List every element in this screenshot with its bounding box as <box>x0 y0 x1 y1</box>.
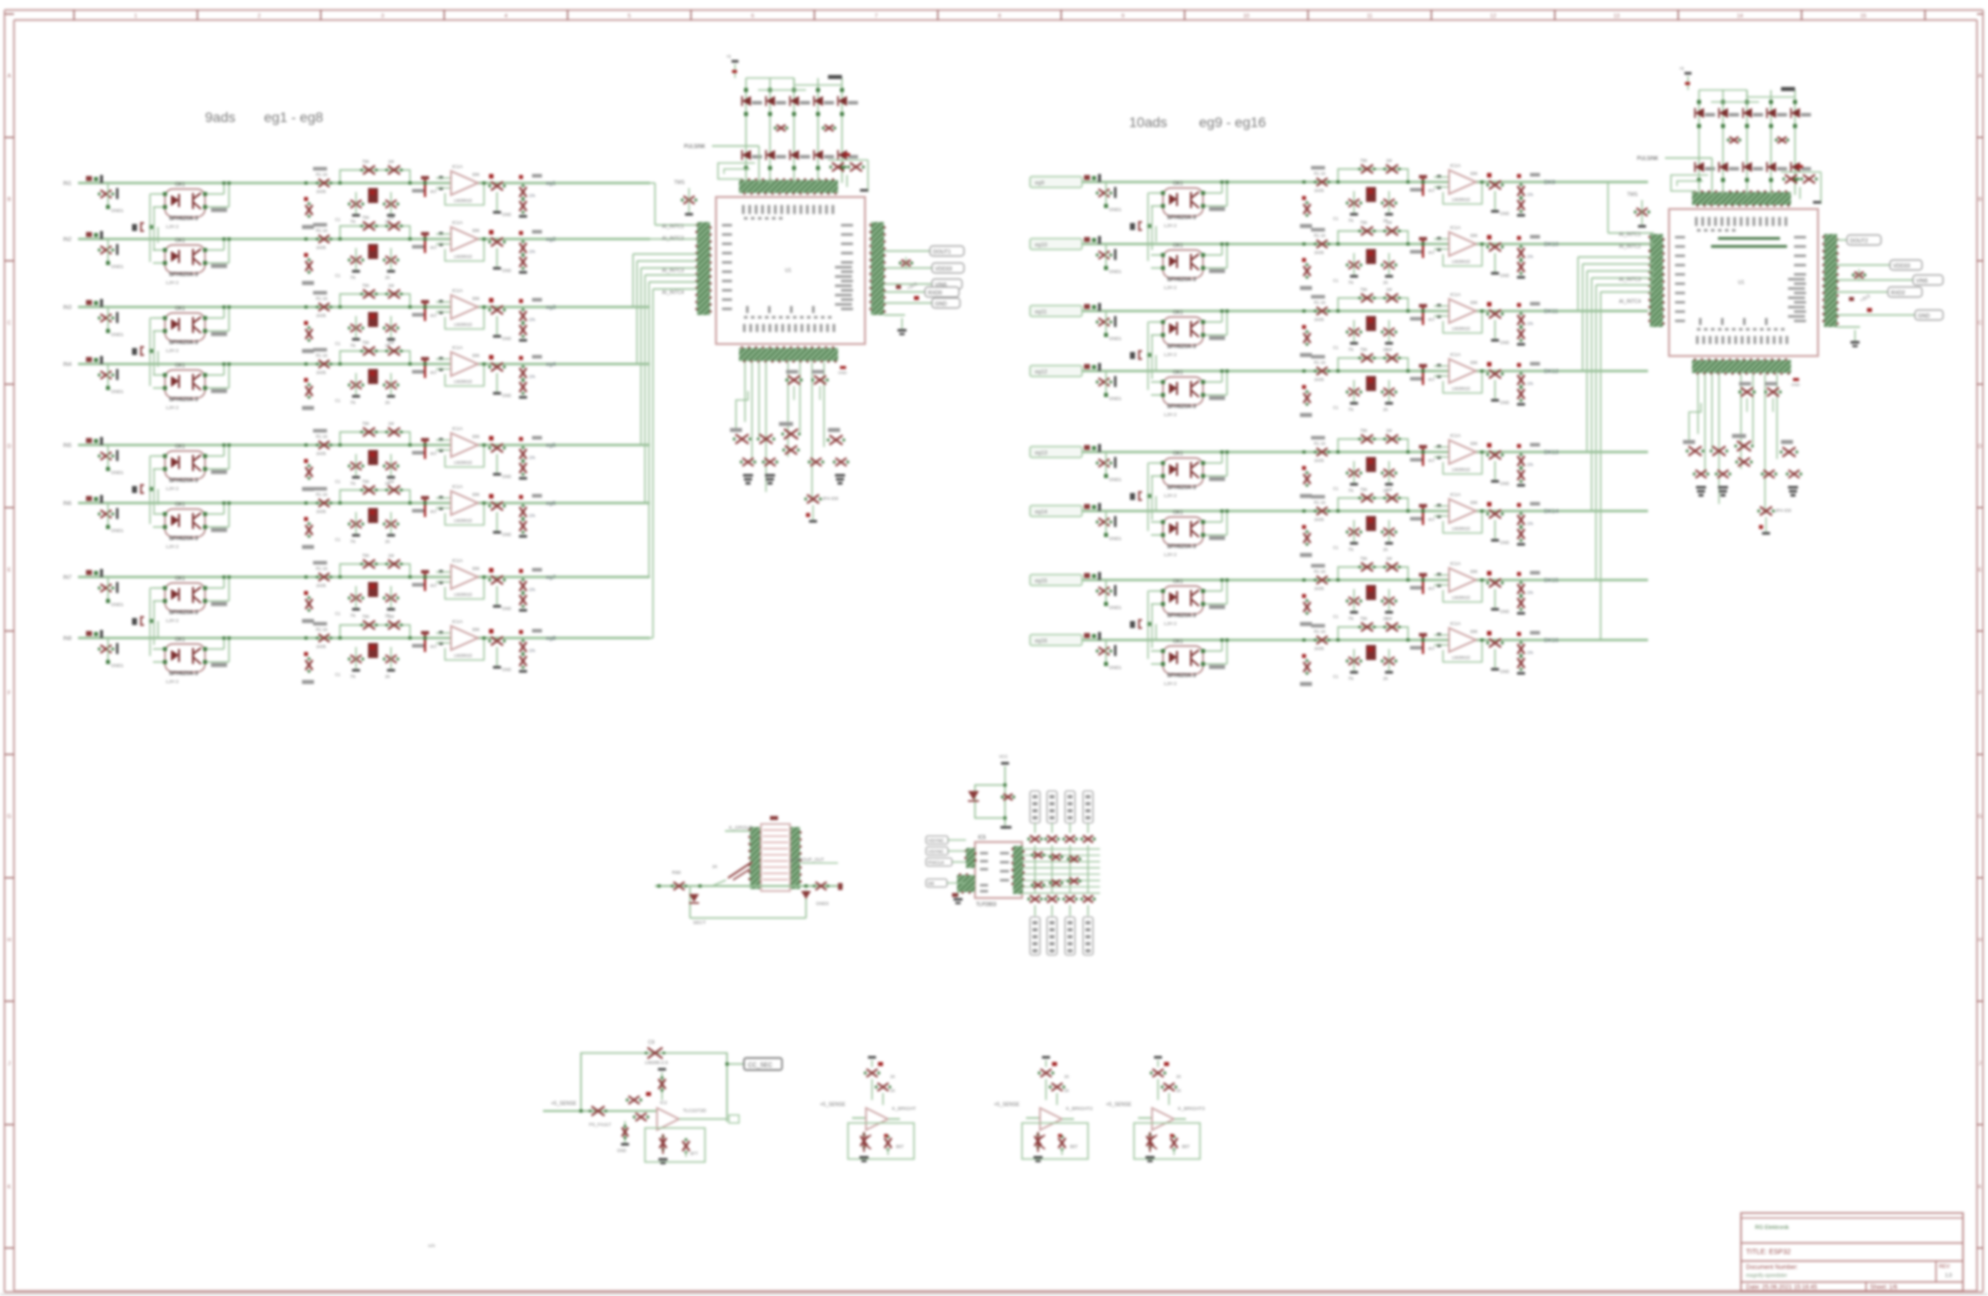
svg-text:1K05: 1K05 <box>1314 517 1324 522</box>
svg-text:1.0: 1.0 <box>1945 1273 1952 1279</box>
svg-text:1M: 1M <box>388 553 394 558</box>
svg-text:GND1: GND1 <box>111 602 124 607</box>
svg-text:GND: GND <box>502 606 511 611</box>
svg-text:LJH 2: LJH 2 <box>166 405 179 411</box>
svg-text:1M: 1M <box>388 479 394 484</box>
svg-text:75K: 75K <box>362 159 370 164</box>
svg-text:H: H <box>7 938 11 944</box>
svg-text:9ads: 9ads <box>205 109 235 125</box>
svg-text:DK15: DK15 <box>1544 578 1559 584</box>
svg-text:1K: 1K <box>890 1088 895 1093</box>
svg-text:C9: C9 <box>648 1040 655 1046</box>
svg-text:1K05: 1K05 <box>316 583 326 588</box>
svg-text:7N: 7N <box>1348 218 1353 223</box>
svg-text:Sheet: 1/6: Sheet: 1/6 <box>1870 1285 1898 1291</box>
svg-text:1K05: 1K05 <box>1314 377 1324 382</box>
svg-text:75K: 75K <box>362 215 370 220</box>
svg-text:B: B <box>1978 197 1982 203</box>
svg-text:OK1: OK1 <box>175 363 185 369</box>
svg-text:1M: 1M <box>1386 616 1392 621</box>
svg-text:C1: C1 <box>1333 278 1339 283</box>
svg-text:eg12: eg12 <box>1035 370 1047 376</box>
svg-text:GND: GND <box>1500 540 1509 545</box>
svg-text:4n7: 4n7 <box>1428 458 1436 463</box>
svg-text:OK1: OK1 <box>1173 451 1183 457</box>
svg-text:SFT: SFT <box>690 1151 698 1156</box>
svg-text:LJH 2: LJH 2 <box>1164 352 1177 358</box>
svg-text:7N: 7N <box>350 275 355 280</box>
svg-text:GND: GND <box>502 474 511 479</box>
svg-text:30K: 30K <box>1470 171 1478 176</box>
svg-text:4n7: 4n7 <box>430 313 438 318</box>
svg-text:10ads: 10ads <box>1129 114 1167 130</box>
svg-text:1K05: 1K05 <box>1314 188 1324 193</box>
svg-text:30K: 30K <box>1470 569 1478 574</box>
svg-text:C1: C1 <box>1333 614 1339 619</box>
svg-text:1%: 1% <box>1527 650 1533 655</box>
svg-text:2K: 2K <box>1383 407 1388 412</box>
svg-text:IC1A: IC1A <box>1450 621 1461 627</box>
svg-text:SFH620A-3: SFH620A-3 <box>1167 344 1196 350</box>
svg-text:2K: 2K <box>385 275 390 280</box>
svg-text:J: J <box>1979 1061 1982 1067</box>
svg-text:1: 1 <box>134 14 137 20</box>
svg-text:1%: 1% <box>1527 254 1533 259</box>
svg-text:K_BRIGHT2: K_BRIGHT2 <box>1066 1106 1093 1112</box>
svg-text:eg1: eg1 <box>546 181 556 187</box>
svg-text:1%: 1% <box>529 193 535 198</box>
svg-text:OK1: OK1 <box>175 306 185 312</box>
svg-text:1%: 1% <box>529 249 535 254</box>
svg-text:1K05: 1K05 <box>316 313 326 318</box>
svg-text:75K: 75K <box>362 283 370 288</box>
svg-text:7: 7 <box>875 14 878 20</box>
svg-text:OK1: OK1 <box>1173 370 1183 376</box>
svg-text:75K: 75K <box>1360 556 1368 561</box>
svg-text:PS_FAULT: PS_FAULT <box>589 1122 611 1127</box>
svg-text:LJH 2: LJH 2 <box>166 224 179 230</box>
svg-text:AI_INTC1: AI_INTC1 <box>662 224 684 230</box>
svg-text:1%: 1% <box>1527 462 1533 467</box>
svg-text:75K: 75K <box>1360 616 1368 621</box>
svg-text:AI_INTC4: AI_INTC4 <box>662 290 684 296</box>
svg-text:4n7: 4n7 <box>1428 317 1436 322</box>
svg-text:E: E <box>7 567 11 573</box>
svg-text:DK12: DK12 <box>1544 369 1559 375</box>
svg-text:1%: 1% <box>529 455 535 460</box>
svg-text:75K: 75K <box>1360 158 1368 163</box>
svg-text:LJH 2: LJH 2 <box>166 679 179 685</box>
svg-text:R1 1K: R1 1K <box>316 228 328 233</box>
svg-text:14: 14 <box>1737 14 1743 20</box>
svg-text:10: 10 <box>1243 14 1249 20</box>
svg-text:Date: 25.06.2021 15:16:45: Date: 25.06.2021 15:16:45 <box>1746 1285 1818 1291</box>
svg-text:TMS: TMS <box>674 180 685 186</box>
svg-text:1M: 1M <box>388 421 394 426</box>
svg-text:2K: 2K <box>1383 547 1388 552</box>
svg-text:GND: GND <box>1918 314 1930 320</box>
svg-text:6: 6 <box>751 14 754 20</box>
svg-text:DK9: DK9 <box>1544 180 1555 186</box>
svg-text:R1 1K: R1 1K <box>1314 569 1326 574</box>
svg-text:OK1: OK1 <box>175 444 185 450</box>
svg-text:30K: 30K <box>472 627 480 632</box>
svg-text:75K: 75K <box>1360 487 1368 492</box>
svg-text:LM2901D: LM2901D <box>1452 655 1470 660</box>
svg-text:B: B <box>7 197 11 203</box>
svg-text:OK1: OK1 <box>175 576 185 582</box>
svg-text:OK1: OK1 <box>1173 310 1183 316</box>
svg-text:+5_SENSE: +5_SENSE <box>820 1102 846 1108</box>
svg-text:REV:: REV: <box>1939 1264 1950 1270</box>
svg-text:LM2901D: LM2901D <box>454 322 472 327</box>
svg-text:LM2901D: LM2901D <box>454 460 472 465</box>
svg-text:R1 1K: R1 1K <box>316 296 328 301</box>
svg-text:LM2901D: LM2901D <box>1452 197 1470 202</box>
svg-text:eg10: eg10 <box>1035 243 1047 249</box>
svg-text:C1: C1 <box>335 672 341 677</box>
svg-text:K_GROUP: K_GROUP <box>729 825 752 831</box>
svg-text:eg5: eg5 <box>546 443 556 449</box>
svg-text:7N: 7N <box>350 219 355 224</box>
svg-text:DE: DE <box>928 881 934 886</box>
svg-text:OK1: OK1 <box>1173 510 1183 516</box>
svg-text:SFH620A-3: SFH620A-3 <box>1167 673 1196 679</box>
svg-text:LJH 2: LJH 2 <box>1164 412 1177 418</box>
svg-text:eg8: eg8 <box>546 636 556 642</box>
svg-text:30K: 30K <box>1470 629 1478 634</box>
svg-text:D: D <box>7 444 11 450</box>
svg-text:SECT: SECT <box>693 920 706 926</box>
svg-text:1K05: 1K05 <box>316 189 326 194</box>
svg-text:IN2: IN2 <box>63 237 72 243</box>
svg-text:SFH620A-3: SFH620A-3 <box>1167 215 1196 221</box>
svg-text:7N: 7N <box>350 539 355 544</box>
svg-text:GND: GND <box>1500 340 1509 345</box>
svg-text:C1: C1 <box>335 341 341 346</box>
svg-text:GND: GND <box>1500 400 1509 405</box>
svg-text:C1: C1 <box>335 217 341 222</box>
svg-text:LM2901D: LM2901D <box>1452 526 1470 531</box>
svg-text:R1 1K: R1 1K <box>316 566 328 571</box>
svg-text:7N: 7N <box>350 674 355 679</box>
svg-text:TITLE: ESP32: TITLE: ESP32 <box>1746 1249 1791 1256</box>
svg-text:R1 1K: R1 1K <box>1314 233 1326 238</box>
svg-text:OK1: OK1 <box>175 502 185 508</box>
svg-text:GND: GND <box>1500 211 1509 216</box>
svg-text:GND: GND <box>502 268 511 273</box>
svg-text:AI_INTC3: AI_INTC3 <box>1619 277 1641 283</box>
svg-text:R1 1K: R1 1K <box>316 434 328 439</box>
svg-text:7N: 7N <box>1348 347 1353 352</box>
svg-text:eg3: eg3 <box>546 305 556 311</box>
svg-text:1M: 1M <box>1386 556 1392 561</box>
svg-text:1%: 1% <box>1527 192 1533 197</box>
svg-text:2K: 2K <box>1383 676 1388 681</box>
svg-text:A: A <box>7 74 11 80</box>
svg-text:IN1: IN1 <box>63 181 72 187</box>
svg-text:1K05: 1K05 <box>316 509 326 514</box>
svg-text:75K: 75K <box>362 340 370 345</box>
svg-text:75K: 75K <box>362 421 370 426</box>
svg-text:1M: 1M <box>1386 220 1392 225</box>
svg-text:LM285-2.5: LM285-2.5 <box>645 1060 668 1066</box>
svg-text:GND1: GND1 <box>1109 336 1122 341</box>
svg-text:75K: 75K <box>362 614 370 619</box>
svg-text:LJH 2: LJH 2 <box>1164 552 1177 558</box>
svg-text:eg1 - eg8: eg1 - eg8 <box>264 109 323 125</box>
svg-text:30K: 30K <box>1470 500 1478 505</box>
svg-text:R1 1K: R1 1K <box>316 353 328 358</box>
svg-text:1%: 1% <box>1527 381 1533 386</box>
svg-text:OK1: OK1 <box>1173 579 1183 585</box>
svg-text:C1: C1 <box>1333 545 1339 550</box>
svg-text:+5_SENSE: +5_SENSE <box>1106 1102 1132 1108</box>
svg-text:IN3: IN3 <box>63 305 72 311</box>
svg-text:GND1: GND1 <box>111 389 124 394</box>
svg-text:IC2: IC2 <box>660 1100 668 1105</box>
svg-text:4n7: 4n7 <box>1428 188 1436 193</box>
svg-text:IC1A: IC1A <box>1450 352 1461 358</box>
svg-text:CC_SEC: CC_SEC <box>748 1063 773 1069</box>
svg-text:R1 1K: R1 1K <box>1314 500 1326 505</box>
svg-text:12: 12 <box>1490 14 1496 20</box>
svg-text:GND: GND <box>1500 273 1509 278</box>
svg-text:2K: 2K <box>385 400 390 405</box>
svg-text:9: 9 <box>1121 14 1124 20</box>
svg-text:DK13: DK13 <box>1544 450 1559 456</box>
svg-text:eg9: eg9 <box>1035 181 1044 187</box>
svg-text:K_BRIGHT3: K_BRIGHT3 <box>1178 1106 1205 1112</box>
svg-text:VDD33: VDD33 <box>935 267 952 273</box>
svg-text:C1: C1 <box>1333 345 1339 350</box>
svg-text:ads: ads <box>428 1243 436 1248</box>
svg-text:VDD33: VDD33 <box>1893 264 1910 270</box>
svg-text:GND1: GND1 <box>111 528 124 533</box>
svg-text:4n7: 4n7 <box>430 509 438 514</box>
svg-text:IN6: IN6 <box>63 501 72 507</box>
svg-text:VSYNC: VSYNC <box>928 849 945 854</box>
svg-text:TLC2272D: TLC2272D <box>683 1108 707 1114</box>
svg-text:GND: GND <box>1500 669 1509 674</box>
svg-text:1K: 1K <box>712 864 718 869</box>
svg-text:30K: 30K <box>1470 233 1478 238</box>
svg-text:1K: 1K <box>1176 1074 1181 1079</box>
svg-text:1K05: 1K05 <box>1314 646 1324 651</box>
svg-text:+5: +5 <box>726 54 731 59</box>
svg-text:GND1: GND1 <box>1109 536 1122 541</box>
svg-text:1M: 1M <box>1386 347 1392 352</box>
svg-text:1K: 1K <box>1064 1088 1069 1093</box>
svg-text:C: C <box>7 321 11 327</box>
svg-text:RG Elektronik: RG Elektronik <box>1755 1225 1789 1231</box>
svg-text:eg15: eg15 <box>1035 579 1047 585</box>
svg-text:U1: U1 <box>1738 280 1745 286</box>
svg-text:IC1A: IC1A <box>1450 433 1461 439</box>
svg-text:1K05: 1K05 <box>316 451 326 456</box>
svg-text:30K: 30K <box>472 353 480 358</box>
svg-text:C1: C1 <box>335 537 341 542</box>
svg-text:1M: 1M <box>388 159 394 164</box>
svg-text:7N: 7N <box>350 613 355 618</box>
svg-text:30K: 30K <box>472 172 480 177</box>
svg-text:1%: 1% <box>529 648 535 653</box>
svg-text:GND1: GND1 <box>111 264 124 269</box>
svg-text:OK1: OK1 <box>175 637 185 643</box>
svg-text:+5_SENSE: +5_SENSE <box>551 1101 577 1107</box>
svg-text:SFH620A-3: SFH620A-3 <box>169 671 198 677</box>
svg-text:IC1A: IC1A <box>452 220 463 226</box>
svg-text:GND: GND <box>1500 481 1509 486</box>
svg-text:1%: 1% <box>1527 590 1533 595</box>
svg-text:+5: +5 <box>1679 66 1684 71</box>
svg-text:IN5: IN5 <box>63 443 72 449</box>
svg-text:eg6: eg6 <box>546 501 556 507</box>
svg-text:eg14: eg14 <box>1035 510 1047 516</box>
svg-text:R1 1K: R1 1K <box>316 172 328 177</box>
svg-text:1K05: 1K05 <box>316 245 326 250</box>
svg-text:IC1A: IC1A <box>1450 163 1461 169</box>
svg-text:1%: 1% <box>529 587 535 592</box>
svg-text:1K05: 1K05 <box>1314 586 1324 591</box>
svg-text:11: 11 <box>1367 14 1373 20</box>
svg-text:VIN5: VIN5 <box>1916 279 1928 285</box>
svg-text:DK16: DK16 <box>1544 638 1559 644</box>
svg-text:30K: 30K <box>472 566 480 571</box>
svg-text:eg4: eg4 <box>546 362 556 368</box>
svg-text:GND: GND <box>617 1148 626 1153</box>
svg-text:GND1: GND1 <box>1109 605 1122 610</box>
svg-text:SFH620A-3: SFH620A-3 <box>169 340 198 346</box>
svg-text:LJH 2: LJH 2 <box>166 348 179 354</box>
svg-text:7N: 7N <box>350 481 355 486</box>
svg-text:C1: C1 <box>1333 216 1339 221</box>
svg-text:R1 1K: R1 1K <box>1314 441 1326 446</box>
svg-text:1K: 1K <box>1176 1088 1181 1093</box>
svg-text:JP4 IO0: JP4 IO0 <box>822 496 839 501</box>
svg-text:SFH620A-3: SFH620A-3 <box>169 536 198 542</box>
svg-text:1K05: 1K05 <box>1314 317 1324 322</box>
svg-text:1K05: 1K05 <box>316 370 326 375</box>
svg-text:1K05: 1K05 <box>1314 250 1324 255</box>
svg-text:30K: 30K <box>472 296 480 301</box>
svg-text:A: A <box>1978 74 1982 80</box>
svg-text:DOUT2: DOUT2 <box>1850 239 1868 245</box>
svg-text:2K: 2K <box>385 539 390 544</box>
svg-text:7N: 7N <box>350 343 355 348</box>
svg-text:1%: 1% <box>529 317 535 322</box>
svg-text:1M: 1M <box>1386 487 1392 492</box>
svg-text:B5T: B5T <box>1070 1144 1078 1149</box>
svg-text:AI_INTC2: AI_INTC2 <box>662 236 684 242</box>
svg-text:75K: 75K <box>362 479 370 484</box>
svg-text:AI_INTC3: AI_INTC3 <box>662 268 684 274</box>
svg-text:1K05: 1K05 <box>1314 458 1324 463</box>
svg-text:8: 8 <box>998 14 1001 20</box>
svg-text:HSYNC: HSYNC <box>928 838 945 843</box>
svg-text:SFH620A-3: SFH620A-3 <box>169 397 198 403</box>
svg-text:4n7: 4n7 <box>1428 586 1436 591</box>
svg-text:D: D <box>1978 444 1982 450</box>
svg-text:C1: C1 <box>335 398 341 403</box>
svg-text:7N: 7N <box>1348 676 1353 681</box>
svg-text:7N: 7N <box>1348 280 1353 285</box>
svg-text:LM2901D: LM2901D <box>1452 595 1470 600</box>
svg-text:OK1: OK1 <box>1173 639 1183 645</box>
svg-text:7N: 7N <box>350 400 355 405</box>
svg-text:R1 1K: R1 1K <box>1314 629 1326 634</box>
svg-text:4n7: 4n7 <box>1428 250 1436 255</box>
svg-text:TMS: TMS <box>1627 192 1638 198</box>
svg-text:PULSINK: PULSINK <box>684 144 706 150</box>
svg-text:30K: 30K <box>472 228 480 233</box>
svg-text:AI_INTC2: AI_INTC2 <box>1619 244 1641 250</box>
svg-text:GND: GND <box>502 212 511 217</box>
svg-text:C1: C1 <box>1333 405 1339 410</box>
svg-text:G: G <box>1978 814 1982 820</box>
svg-text:4n7: 4n7 <box>1428 517 1436 522</box>
svg-text:C: C <box>1978 321 1982 327</box>
svg-text:LJH 2: LJH 2 <box>166 280 179 286</box>
svg-text:B5T: B5T <box>1182 1144 1190 1149</box>
svg-text:GND: GND <box>1500 609 1509 614</box>
svg-text:LJH 2: LJH 2 <box>166 544 179 550</box>
svg-text:IC1A: IC1A <box>452 288 463 294</box>
svg-text:IC1A: IC1A <box>1450 492 1461 498</box>
svg-text:IC1A: IC1A <box>1450 561 1461 567</box>
svg-text:2K: 2K <box>385 674 390 679</box>
svg-text:K_GROUP_OUT: K_GROUP_OUT <box>790 857 824 862</box>
svg-text:4n7: 4n7 <box>430 189 438 194</box>
svg-text:H: H <box>1978 938 1982 944</box>
svg-text:DK10: DK10 <box>1544 242 1559 248</box>
svg-text:4n7: 4n7 <box>430 370 438 375</box>
svg-text:IC1A: IC1A <box>452 426 463 432</box>
svg-text:GND1: GND1 <box>1109 269 1122 274</box>
svg-text:Document Number:: Document Number: <box>1746 1265 1798 1271</box>
svg-text:LM2901D: LM2901D <box>454 653 472 658</box>
svg-text:1%: 1% <box>529 513 535 518</box>
svg-text:GND1: GND1 <box>111 208 124 213</box>
svg-text:LJH 2: LJH 2 <box>1164 223 1177 229</box>
svg-text:GND1: GND1 <box>111 663 124 668</box>
svg-text:GND: GND <box>935 302 947 308</box>
svg-text:30K: 30K <box>472 492 480 497</box>
svg-text:R1 1K: R1 1K <box>316 627 328 632</box>
svg-text:4n7: 4n7 <box>1428 377 1436 382</box>
svg-text:LM2901D: LM2901D <box>454 198 472 203</box>
svg-text:R1 1K: R1 1K <box>316 492 328 497</box>
svg-text:IC1A: IC1A <box>452 619 463 625</box>
svg-text:SFH620A-3: SFH620A-3 <box>1167 613 1196 619</box>
svg-text:GND3: GND3 <box>816 901 829 906</box>
svg-text:1M: 1M <box>388 283 394 288</box>
svg-text:C1: C1 <box>335 479 341 484</box>
svg-text:13: 13 <box>1613 14 1619 20</box>
svg-text:DK14: DK14 <box>1544 509 1559 515</box>
svg-text:E: E <box>1978 567 1982 573</box>
svg-text:LJH 2: LJH 2 <box>1164 621 1177 627</box>
svg-text:LM2901D: LM2901D <box>1452 467 1470 472</box>
svg-text:GND: GND <box>838 370 847 375</box>
svg-text:C1: C1 <box>335 611 341 616</box>
svg-text:SFH620A-3: SFH620A-3 <box>1167 544 1196 550</box>
svg-text:eg7: eg7 <box>546 575 556 581</box>
svg-text:LM2901D: LM2901D <box>454 254 472 259</box>
svg-text:IN8: IN8 <box>63 636 72 642</box>
svg-text:7N: 7N <box>1348 407 1353 412</box>
svg-text:R1 1K: R1 1K <box>1314 300 1326 305</box>
